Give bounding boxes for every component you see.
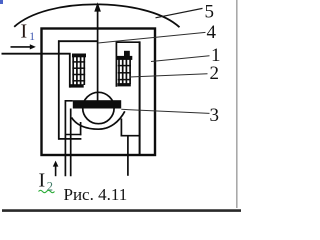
leader line to 2 bbox=[130, 74, 208, 77]
leader line to 3 bbox=[121, 109, 209, 113]
arrow I2 (current direction) bbox=[53, 161, 59, 177]
page border right bbox=[236, 0, 238, 208]
magnetic core frame 1 (outer rectangle) bbox=[42, 29, 156, 156]
moving coil 3 (black bar) bbox=[73, 100, 121, 108]
svg-text:1: 1 bbox=[29, 31, 35, 43]
page border bottom bbox=[2, 209, 241, 212]
fixed coil 2, left winding (hatched cross-section) bbox=[70, 54, 86, 88]
moving coil lead right bbox=[127, 136, 129, 175]
cylindrical core (circle) bbox=[83, 92, 114, 123]
pole shoe left step bbox=[65, 134, 81, 136]
svg-text:2: 2 bbox=[210, 63, 220, 84]
arrow I1 (current direction) bbox=[11, 44, 36, 49]
svg-text:5: 5 bbox=[205, 2, 215, 23]
core window right edge bbox=[139, 41, 141, 155]
leader line to 5 bbox=[156, 8, 203, 17]
pole shoe arc (cradle around cylinder) bbox=[72, 111, 125, 129]
svg-text:I: I bbox=[21, 21, 28, 43]
scale 5 (arc) bbox=[14, 4, 179, 27]
core bottom-right step bbox=[121, 135, 141, 137]
svg-text:4: 4 bbox=[207, 22, 217, 43]
svg-text:I: I bbox=[39, 170, 46, 192]
wire: I1 input lead bbox=[2, 54, 70, 88]
moving coil lead B bbox=[70, 109, 72, 177]
pole shoe left wall bbox=[80, 122, 82, 135]
core window top edge bbox=[58, 40, 98, 42]
leader line to 1 bbox=[151, 56, 210, 62]
svg-text:Рис. 4.11: Рис. 4.11 bbox=[64, 185, 128, 204]
pointer 4 (needle with arrowhead) bbox=[94, 2, 101, 100]
moving coil lead A bbox=[65, 101, 72, 177]
leader line to 4 bbox=[98, 32, 206, 43]
pole shoe right wall bbox=[120, 119, 122, 137]
core bottom-left step bbox=[58, 138, 81, 140]
green squiggle (spellcheck artifact) bbox=[39, 190, 55, 192]
svg-text:3: 3 bbox=[210, 105, 220, 126]
core window left edge bbox=[58, 40, 60, 139]
blue scan artifact top-left bbox=[0, 0, 3, 4]
fixed coil 2, right winding (hatched cross-section) bbox=[116, 42, 139, 87]
